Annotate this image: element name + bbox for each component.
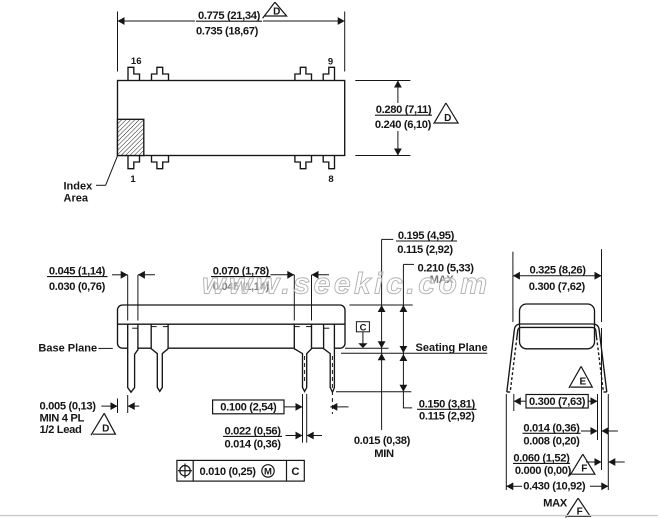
svg-text:M: M <box>264 466 272 477</box>
dim 0.280 extension lines <box>355 80 410 82</box>
dim 0.070 arrows <box>271 274 295 276</box>
dim 0.060 arrows <box>586 461 602 463</box>
dim text 0.150/0.115 <box>417 398 477 422</box>
dim 0.300 box arrows <box>514 397 521 405</box>
dim text 0.045/0.030 <box>47 265 108 292</box>
svg-text:0.240 (6,10): 0.240 (6,10) <box>375 119 432 131</box>
dim 0.325 arrows <box>513 275 602 277</box>
svg-text:0.014 (0,36): 0.014 (0,36) <box>523 422 580 434</box>
svg-text:0.115 (2,92): 0.115 (2,92) <box>419 410 475 422</box>
svg-text:0.280 (7,11): 0.280 (7,11) <box>376 104 432 116</box>
end view lead inner left dashed <box>510 338 517 393</box>
leader 0.150 bracket <box>403 392 412 408</box>
pin 9 tab <box>323 67 334 80</box>
lead tip line <box>336 391 411 393</box>
svg-text:0.014 (0,36): 0.014 (0,36) <box>225 439 282 451</box>
dim text 0.060/0.000 <box>513 452 572 477</box>
revision flag F (0.060) <box>570 454 595 475</box>
svg-text:1/2 Lead: 1/2 Lead <box>40 424 82 436</box>
svg-text:C: C <box>360 322 367 333</box>
dim 0.775 extension lines <box>117 12 119 72</box>
end view body <box>520 304 595 349</box>
lead 7 centerline dashed <box>304 356 306 384</box>
svg-text:0.195 (4,95): 0.195 (4,95) <box>398 230 455 242</box>
dim text 0.070/0.045 <box>211 265 271 292</box>
side view body <box>118 305 346 348</box>
base plane extension line <box>345 347 389 349</box>
svg-text:0.115 (2,92): 0.115 (2,92) <box>397 244 453 256</box>
svg-text:MIN 4 PL: MIN 4 PL <box>40 412 85 424</box>
revision flag E <box>569 366 592 388</box>
end view lead inner right dashed <box>597 338 604 393</box>
svg-text:F: F <box>581 464 587 475</box>
dim text 0.325/0.300 <box>529 265 587 293</box>
svg-text:C: C <box>291 466 299 478</box>
lead 1 side (half lead) <box>128 324 138 392</box>
dim text 0.210 MAX <box>418 262 475 286</box>
end view lead outer profile <box>507 324 607 392</box>
dim 0.045 arrows <box>112 274 128 276</box>
dim line v2 <box>402 264 404 391</box>
svg-text:0.735 (18,67): 0.735 (18,67) <box>196 25 259 37</box>
seating plane line <box>341 352 487 354</box>
dim line v1 <box>381 239 383 430</box>
svg-text:0.005 (0,13): 0.005 (0,13) <box>40 401 97 413</box>
end view lead tips <box>507 391 510 393</box>
end view lead inner left solid <box>516 331 519 338</box>
index area leader <box>96 184 106 186</box>
svg-text:Seating Plane: Seating Plane <box>416 342 488 354</box>
dim 0.430 arrows <box>506 485 522 487</box>
svg-text:0.045 (1,14): 0.045 (1,14) <box>49 265 106 277</box>
dim 0.022 arrows <box>286 435 303 437</box>
side view body mid line <box>118 323 346 325</box>
dim text 0.100 box <box>213 400 284 414</box>
svg-text:D: D <box>273 7 280 18</box>
dim 0.014 arrows <box>581 430 598 432</box>
svg-text:0.022 (0,56): 0.022 (0,56) <box>225 425 282 437</box>
svg-text:0.430 (10,92): 0.430 (10,92) <box>523 481 586 493</box>
revision flag D (top) <box>263 2 287 18</box>
lead 7 side <box>294 324 311 391</box>
dim text 0.005 block <box>40 401 97 436</box>
leader 0.210 <box>403 263 414 265</box>
dim text 0.014/0.008 <box>523 422 581 447</box>
index area label <box>64 181 94 205</box>
svg-text:16: 16 <box>131 56 142 67</box>
pin 10 tab <box>295 67 312 80</box>
svg-text:1: 1 <box>130 174 136 185</box>
end view below-lead extension lines <box>505 394 507 490</box>
revision flag D (1/2 lead) <box>91 413 115 435</box>
svg-text:8: 8 <box>328 174 333 185</box>
dim 0.280 arrowheads <box>394 81 402 88</box>
svg-text:0.325 (8,26): 0.325 (8,26) <box>530 265 587 277</box>
svg-text:Base Plane: Base Plane <box>38 342 97 354</box>
pin 16 tab <box>128 67 140 80</box>
revision flag D (right of 0.280) <box>434 103 459 124</box>
svg-text:0.010 (0,25): 0.010 (0,25) <box>200 466 257 478</box>
svg-text:MIN: MIN <box>374 448 394 460</box>
svg-text:0.008 (0,20): 0.008 (0,20) <box>523 435 580 447</box>
svg-text:D: D <box>444 113 451 124</box>
svg-text:0.030 (0,76): 0.030 (0,76) <box>49 281 106 293</box>
svg-text:9: 9 <box>328 57 333 68</box>
dim 0.045 extension lines <box>127 275 129 321</box>
svg-text:www.seekic.com: www.seekic.com <box>202 268 487 301</box>
index area hatched square <box>118 119 144 155</box>
svg-text:MAX: MAX <box>543 498 568 510</box>
dim 0.775 dimension line <box>118 20 196 22</box>
dim 0.005 extension lines <box>117 399 119 414</box>
end view lead inner right solid <box>595 331 598 338</box>
svg-text:0.150 (3,81): 0.150 (3,81) <box>419 398 476 410</box>
dim text 0.430 MAX <box>523 481 586 510</box>
dim 0.005 arrows <box>101 405 117 407</box>
dim text 0.022/0.014 <box>223 425 282 450</box>
lead 7 edge extension lines <box>302 394 304 443</box>
gaps in body bottom edge at lead shoulders <box>127 347 335 350</box>
revision flag F (0.430) <box>566 498 591 517</box>
dim 0.070 extension lines <box>293 275 295 321</box>
lead 8 centerline dashed <box>331 356 333 414</box>
svg-text:E: E <box>579 377 586 388</box>
svg-text:D: D <box>102 424 109 435</box>
svg-text:0.775 (21,34): 0.775 (21,34) <box>198 10 261 22</box>
svg-text:0.300 (7,63): 0.300 (7,63) <box>529 396 586 408</box>
dim text 0.195/0.115 <box>396 230 457 256</box>
base plane leader <box>98 347 112 349</box>
svg-text:0.100 (2,54): 0.100 (2,54) <box>220 402 277 414</box>
pin 2 tab <box>152 156 169 169</box>
end view lead inner profile top <box>518 327 596 330</box>
dim text 0.300 box <box>526 395 588 409</box>
pin 15 tab <box>152 67 169 80</box>
svg-text:Area: Area <box>64 192 89 204</box>
pin 1 tab <box>128 156 140 169</box>
dim 0.325 extension lines <box>512 252 514 322</box>
feature control frame <box>177 460 304 481</box>
svg-text:0.015 (0,38): 0.015 (0,38) <box>354 435 411 447</box>
dim 0.280 dimension line <box>397 81 399 104</box>
dim text 0.280/0.240 <box>373 104 434 131</box>
dim text 0.015 MIN <box>354 435 411 460</box>
body top extension line <box>349 304 412 306</box>
datum C flag <box>356 322 369 332</box>
dim text 0.775/0.735 <box>196 10 262 37</box>
svg-text:0.000 (0,00): 0.000 (0,00) <box>515 465 572 477</box>
svg-text:0.060 (1,52): 0.060 (1,52) <box>513 452 570 464</box>
pin 8 tab <box>323 156 334 169</box>
leader 0.195 <box>382 238 394 240</box>
bottom page rule <box>0 515 658 517</box>
dim 0.100 arrows <box>284 406 303 408</box>
svg-text:0.300 (7,62): 0.300 (7,62) <box>529 281 586 293</box>
dim 0.775 arrowheads <box>118 17 125 25</box>
lead 8 side (half lead) <box>324 324 335 392</box>
pin 7 tab <box>295 156 312 169</box>
top view package body <box>118 81 345 156</box>
svg-text:Index: Index <box>64 181 94 193</box>
watermark fade overlays <box>210 279 272 293</box>
lead 2 side <box>151 324 168 391</box>
